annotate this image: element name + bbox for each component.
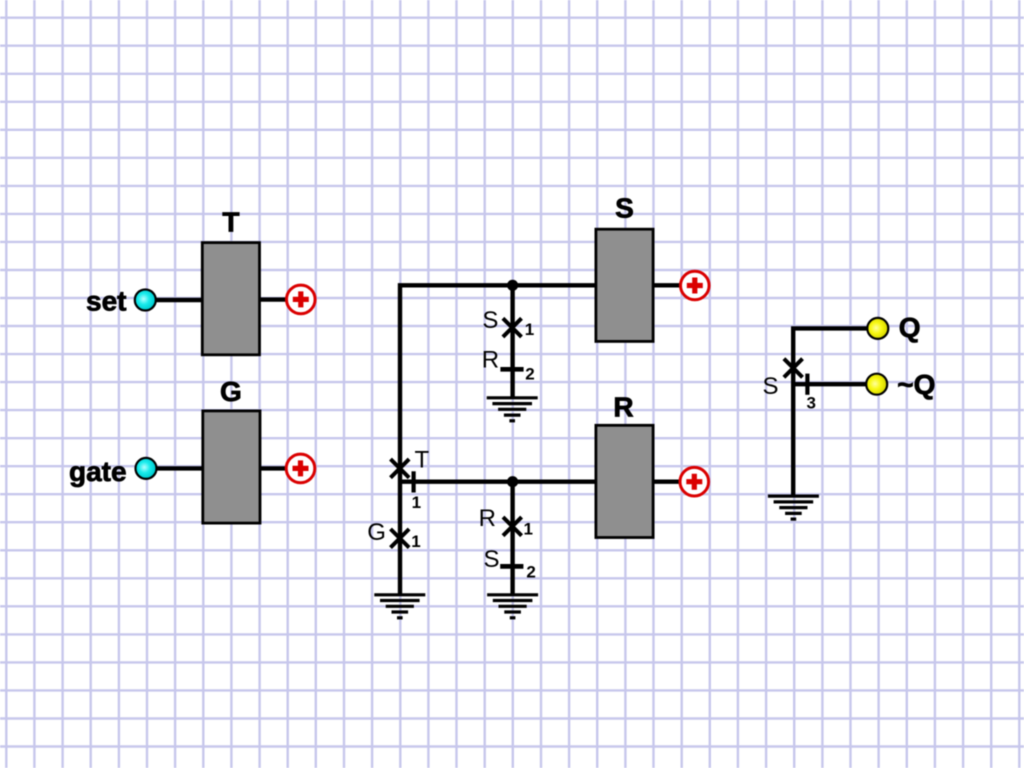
svg-text:S: S	[482, 307, 498, 334]
svg-text:gate: gate	[69, 456, 127, 487]
terminal input gate	[136, 458, 157, 479]
svg-text:1: 1	[525, 320, 534, 339]
contact S3 make (make, X)	[784, 359, 803, 378]
power supply +V for G coil	[286, 454, 315, 483]
ground below S2	[487, 595, 538, 618]
relay coil T	[202, 243, 259, 355]
contact T1 make (make, X)	[391, 459, 410, 478]
junction at R1 branch	[507, 476, 518, 487]
power supply +V for S coil	[681, 271, 710, 300]
svg-text:2: 2	[526, 563, 535, 582]
contact R1 (make, X)	[503, 517, 522, 536]
wire gate to G coil	[157, 466, 204, 470]
relay coil R	[596, 425, 653, 537]
wire left rail up to S coil	[400, 285, 596, 595]
wire S3 rail to Q	[793, 328, 867, 496]
svg-text:1: 1	[524, 520, 533, 539]
power supply +V for T coil	[287, 285, 316, 314]
svg-text:Q: Q	[899, 312, 921, 343]
svg-text:set: set	[86, 285, 126, 316]
svg-text:R: R	[482, 347, 499, 374]
contact S3 break (break, bar)	[805, 374, 809, 395]
svg-text:~Q: ~Q	[897, 369, 935, 400]
svg-text:1: 1	[411, 532, 420, 551]
wire R coil to +V	[653, 480, 680, 484]
svg-text:1: 1	[412, 493, 421, 512]
ground below R2	[487, 398, 538, 421]
svg-text:S: S	[763, 373, 779, 400]
contact T1 break (break, bar)	[412, 471, 416, 492]
wire branch to S1 contact chain	[510, 285, 514, 398]
terminal input set	[135, 290, 156, 311]
svg-text:2: 2	[525, 364, 534, 383]
relay coil S	[596, 229, 653, 341]
contact G1 (make, X)	[391, 529, 410, 548]
ground left rail	[374, 595, 425, 618]
terminal output ~Q	[866, 374, 887, 395]
svg-text:G: G	[367, 519, 386, 546]
wire S coil to +V	[653, 283, 680, 287]
wire T coil to +V	[260, 297, 288, 301]
wire G coil to +V	[259, 466, 287, 470]
wire T1 row to R coil	[400, 480, 596, 484]
svg-text:R: R	[479, 505, 496, 532]
ground right rail	[768, 496, 819, 519]
svg-text:T: T	[415, 447, 430, 474]
svg-text:T: T	[222, 207, 239, 238]
svg-text:S: S	[484, 546, 500, 573]
power supply +V for R coil	[680, 467, 709, 496]
junction at S1 branch	[507, 280, 518, 291]
svg-text:3: 3	[807, 393, 816, 412]
wire branch to R1 contact chain	[510, 482, 514, 595]
contact S1 (make, X)	[503, 318, 522, 337]
svg-text:G: G	[220, 376, 242, 407]
wire set to T coil	[156, 298, 203, 302]
svg-text:S: S	[615, 193, 634, 224]
terminal output Q	[867, 318, 888, 339]
svg-text:R: R	[613, 392, 633, 423]
relay coil G	[203, 411, 260, 523]
contact S2 (break, bar)	[500, 564, 523, 569]
contact R2 (break, bar)	[500, 367, 523, 372]
wire to ~Q	[793, 382, 865, 386]
